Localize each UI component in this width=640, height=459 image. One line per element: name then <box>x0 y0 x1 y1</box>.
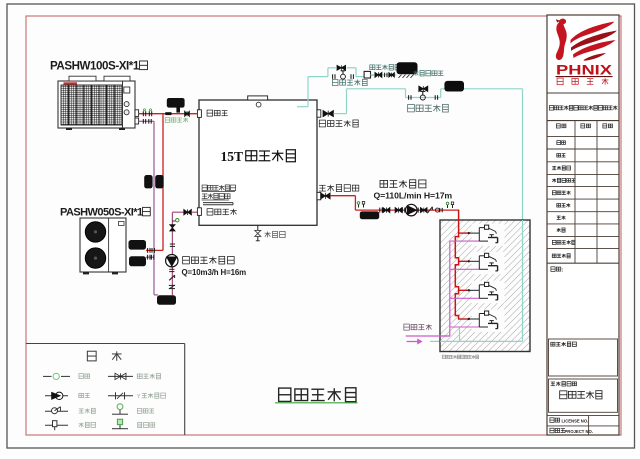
wire return pickup <box>459 328 461 342</box>
wire HP1 return <box>139 120 154 122</box>
valve2 after softener <box>389 73 395 78</box>
legend strainer symbol <box>108 392 133 399</box>
HP1 knob lower <box>124 110 129 115</box>
wire circ from tank <box>172 212 183 295</box>
legend title <box>87 351 121 361</box>
tank label 15T <box>221 149 296 164</box>
HP2 feet <box>83 272 118 274</box>
tank outlet port <box>197 110 201 118</box>
label main circ pump <box>183 256 235 264</box>
flex connector on return riser <box>144 175 152 188</box>
drawing title underline <box>275 402 358 404</box>
flex blob at circ bottom <box>157 295 176 305</box>
HP1 coil grid <box>61 85 122 125</box>
water softener box <box>364 71 374 78</box>
wire HP2 outlet <box>146 249 163 251</box>
HP1 panel divider <box>122 81 124 128</box>
wire return drop to tank valve <box>333 89 346 114</box>
wire makeup into tank top <box>297 77 308 107</box>
valve B on pump line <box>395 208 405 213</box>
signature table grid <box>547 121 619 264</box>
valve C after pump <box>418 208 427 213</box>
tank sensor note line2 <box>202 193 230 200</box>
tank 15T body <box>199 100 317 225</box>
notes section <box>547 263 619 273</box>
valve on makeup bypass <box>337 65 346 70</box>
HP2 return flex blob <box>129 256 146 266</box>
wire return riser inside building <box>440 220 523 341</box>
label hw return port <box>319 120 358 127</box>
wire HP2 return <box>146 256 154 258</box>
pump main circulation <box>166 255 178 267</box>
legend flex symbol <box>43 373 70 379</box>
union below pump <box>169 269 174 271</box>
company name <box>549 105 617 110</box>
tank drain stub <box>256 225 260 241</box>
return solenoid valve <box>409 91 438 100</box>
valve at hw supply <box>321 193 330 199</box>
svg-text:Q=10m3/h H=16m: Q=10m3/h H=16m <box>182 268 247 277</box>
tank hw return port <box>317 110 321 117</box>
union pair HP2 return <box>148 255 154 260</box>
wire return main <box>347 88 523 90</box>
company divider <box>547 120 619 122</box>
union before tank inlet <box>185 111 190 116</box>
PHNIX chinese name <box>557 78 608 85</box>
tank top cap <box>248 96 268 100</box>
svg-text:PHNIX: PHNIX <box>556 63 613 78</box>
wire return bottom run <box>430 340 523 342</box>
PHNIX wordmark underline <box>556 76 613 78</box>
label connect city water <box>404 324 432 330</box>
legend thermometer symbol <box>45 421 68 431</box>
return flex blob <box>444 81 464 92</box>
label hw supply port <box>319 185 359 192</box>
HP1 red brand strip <box>64 82 78 84</box>
label PASHW100S-XI*1 <box>50 60 147 73</box>
valve on circ line <box>170 225 175 231</box>
fixture notches <box>472 224 505 332</box>
wire hot riser vertical <box>162 114 164 251</box>
legend valve symbol <box>108 373 133 379</box>
label PASHW050S-XI*1 <box>60 206 150 218</box>
wire hot supply HP1 to tank <box>139 113 198 115</box>
city water flow arrow <box>407 339 423 344</box>
makeup solenoid valve <box>333 71 354 79</box>
wire hw supply to pump <box>330 196 459 210</box>
wire return riser building <box>522 89 524 342</box>
label water softener <box>370 64 400 70</box>
tank hw supply port <box>317 192 321 199</box>
PHNIX wordmark <box>556 63 613 78</box>
instruments near riser top <box>446 202 453 208</box>
building hatched wall <box>440 220 530 352</box>
union pair on HP1 outlet <box>143 109 151 116</box>
wire return riser vertical <box>153 121 155 295</box>
wire circ bottom link <box>154 294 158 296</box>
valve at hw return <box>323 111 333 117</box>
hot riser in building <box>455 210 458 319</box>
HP1 top tab left <box>69 76 96 81</box>
city water blob <box>397 62 418 74</box>
HP2 fan lower <box>85 248 105 268</box>
svg-text:PASHW100S-XI*1: PASHW100S-XI*1 <box>50 60 140 73</box>
union on circ <box>170 244 175 246</box>
HP1 return port stub <box>135 118 139 124</box>
union pair on HP1 return <box>143 119 151 124</box>
drawing name box <box>549 379 618 412</box>
valve after softener <box>375 72 387 77</box>
flex blob under pump line <box>360 211 379 219</box>
svg-text:15T: 15T <box>221 149 244 164</box>
label tank outlet <box>207 110 228 116</box>
tank circ port <box>197 208 201 216</box>
table row labels <box>552 141 575 258</box>
svg-text:Q=110L/min H=17m: Q=110L/min H=17m <box>374 191 453 201</box>
valve at tank circ port <box>184 209 198 215</box>
legend check symbol <box>45 407 68 414</box>
city water hatch <box>399 75 414 78</box>
makeup bypass loop <box>328 68 356 77</box>
label cp pump <box>380 180 426 188</box>
legend pump symbol <box>45 392 68 399</box>
flow switch body <box>167 98 185 113</box>
PHNIX phoenix logo <box>556 19 617 61</box>
label return solenoid <box>408 104 449 112</box>
svg-text:PASHW050S-XI*1: PASHW050S-XI*1 <box>60 206 143 218</box>
small valve D <box>435 208 442 212</box>
label city water makeup <box>413 70 443 76</box>
wire city supply inside building <box>440 335 450 337</box>
pressure gauge on circ <box>172 219 179 222</box>
drawing name text <box>560 391 602 399</box>
legend check label <box>79 408 96 413</box>
label cp pump duty <box>374 191 453 201</box>
table header <box>556 124 612 128</box>
legend valve label <box>137 374 160 379</box>
instruments at pump corner <box>357 202 364 208</box>
HP1 knob upper <box>124 102 129 107</box>
pump constant pressure <box>406 204 418 216</box>
legend gauge symbol <box>112 404 128 414</box>
label tank circ port <box>207 209 237 215</box>
HP1 control box <box>124 87 130 93</box>
union pair HP2 outlet <box>148 248 155 253</box>
return bypass loop <box>406 89 441 98</box>
label under building <box>442 355 478 359</box>
HP2 outlet flex blob <box>129 240 147 250</box>
title block frame <box>547 15 619 435</box>
legend airvent symbol <box>112 419 128 429</box>
flex connector on hot riser <box>155 175 163 188</box>
HP2 fan upper <box>85 222 105 242</box>
tank sensor probe <box>203 203 233 205</box>
legend gauge label <box>137 408 154 413</box>
legend thermometer label <box>79 422 96 427</box>
strainer on circ <box>169 285 175 289</box>
legend airvent label <box>138 422 155 427</box>
valve A on pump line <box>380 208 390 213</box>
svg-text:LICENSE NO.: LICENSE NO. <box>562 418 589 423</box>
HP1 feet <box>66 128 125 130</box>
wire makeup main <box>308 76 364 78</box>
valve on return bypass <box>419 86 428 91</box>
wire city water supply <box>406 335 450 337</box>
legend flex label <box>79 374 90 379</box>
cold riser in building <box>449 241 451 336</box>
legend strainer label <box>137 393 166 400</box>
HP2 panel divider <box>108 218 110 272</box>
label drain valve <box>265 231 286 237</box>
svg-text:PROJECT NO.: PROJECT NO. <box>565 429 593 434</box>
heat pump HP1 cabinet <box>58 81 135 128</box>
legend pump label <box>79 393 90 397</box>
tank top vent circle <box>256 102 261 107</box>
HP1 top tab right <box>104 76 130 81</box>
HP2 corner mark <box>119 222 125 226</box>
heat pump HP2 cabinet <box>80 218 126 272</box>
legend box <box>26 344 185 436</box>
tank sensor note line1 <box>202 185 236 192</box>
drain valve <box>255 230 261 236</box>
wire makeup right <box>371 74 397 76</box>
project row <box>550 428 593 434</box>
svg-text:Y: Y <box>137 394 141 400</box>
HP1 outlet port stub <box>135 110 139 117</box>
check valve on circ <box>169 275 174 280</box>
logo section divider <box>547 92 619 94</box>
license row <box>550 418 588 424</box>
check valve on pump line <box>427 207 432 213</box>
bottom rows <box>547 415 619 435</box>
label water flow switch <box>165 118 188 123</box>
black union segment <box>165 112 171 115</box>
label makeup solenoid <box>332 79 367 85</box>
label circ pump duty <box>182 268 247 277</box>
drawing title <box>279 388 356 402</box>
summary box <box>549 339 618 376</box>
shower fixtures x4 <box>450 225 498 329</box>
